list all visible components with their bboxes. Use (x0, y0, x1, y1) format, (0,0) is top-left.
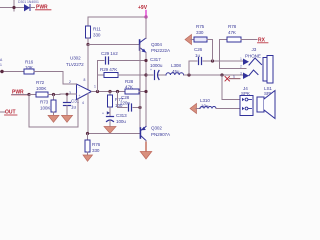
svg-text:U302: U302 (70, 56, 81, 61)
svg-text:45u: 45u (172, 69, 180, 74)
wire op-amp V+ feed (pin 8) (87, 45, 89, 90)
node feedback takeoff (96, 90, 99, 93)
node phones cap branch (187, 73, 190, 76)
svg-text:220n: 220n (120, 101, 130, 106)
svg-text:R78: R78 (228, 24, 237, 29)
svg-text:+: + (102, 112, 104, 116)
diode D301 (25, 5, 35, 11)
transistor Q304 PN2222A (140, 38, 146, 53)
svg-text:+: + (79, 94, 81, 98)
node input edge junction (0, 70, 3, 73)
svg-text:R72: R72 (36, 80, 45, 85)
resistor R77 100 (zobel) (109, 92, 111, 96)
svg-text:-: - (79, 85, 80, 89)
wire R11 bottom to node (87, 38, 89, 45)
wire base drive horizontal (88, 44, 139, 46)
node zobel takeoff (108, 90, 111, 93)
inductor L308 45u (166, 73, 184, 75)
wire feedback vertical (97, 61, 99, 92)
ground under C313 (104, 127, 116, 134)
node R76 branch (86, 132, 89, 135)
svg-text:Q302: Q302 (151, 126, 162, 131)
jack plug barrel (263, 58, 267, 82)
capacitor C313 100u (zobel) (109, 107, 111, 116)
wire +9V rail (88, 16, 146, 18)
svg-text:10u: 10u (201, 104, 209, 109)
ground left (L310) (190, 104, 197, 114)
svg-text:L308: L308 (171, 63, 181, 68)
node base drive (86, 43, 89, 46)
wire op-amp output (92, 91, 126, 93)
svg-text:C26: C26 (194, 47, 203, 52)
jack sleeve contact arrow (243, 73, 249, 80)
resistor R78 47K (220, 40, 247, 69)
svg-text:4: 4 (82, 101, 84, 105)
resistor R16 10K (24, 69, 34, 74)
wire Q305 collector down (145, 141, 147, 144)
svg-text:8: 8 (84, 78, 86, 82)
svg-text:R11: R11 (93, 27, 101, 32)
svg-text:330: 330 (196, 30, 204, 35)
wire bias rail (12, 94, 29, 96)
svg-text:R16: R16 (25, 60, 34, 65)
wire output column (emitters) (145, 53, 147, 127)
svg-text:1: 1 (0, 63, 2, 67)
node speaker branch (220, 73, 223, 76)
svg-text:10K: 10K (25, 65, 34, 70)
resistor R75 330 (194, 37, 207, 42)
capacitor C26 1u (phones) (189, 61, 197, 75)
svg-text:D301 1N4001: D301 1N4001 (18, 0, 39, 4)
jack tip contact arrow (243, 59, 249, 66)
svg-text:PN2222A: PN2222A (151, 48, 171, 53)
node 220n takeoff (116, 90, 119, 93)
svg-text:R76: R76 (92, 142, 101, 147)
resistor 100K (series bias) (36, 92, 48, 97)
resistor R11 (86, 26, 91, 38)
transistor Q305 PN2907A (140, 127, 146, 141)
no-connect X pin5 (225, 77, 230, 82)
svg-text:R73: R73 (40, 100, 49, 105)
ground under R76 (87, 152, 89, 155)
svg-text:3: 3 (240, 72, 242, 76)
svg-text:R28: R28 (125, 79, 134, 84)
svg-text:330: 330 (92, 148, 100, 153)
node attenuator (211, 59, 214, 62)
svg-text:1: 1 (94, 85, 96, 89)
capacitor C29 1n2 (feedback) (98, 60, 105, 62)
connector J4 SPK (240, 96, 253, 116)
svg-text:1000u: 1000u (150, 63, 163, 68)
ground under R73 (53, 112, 55, 115)
svg-text:1: 1 (240, 57, 242, 61)
power port arrow (negative rail) (145, 143, 147, 155)
wire input left edge (0, 71, 24, 73)
capacitor C31 1u (66, 94, 68, 103)
svg-text:TLV2272: TLV2272 (66, 62, 84, 67)
svg-text:100K: 100K (40, 106, 51, 111)
svg-text:C313: C313 (116, 113, 127, 118)
node on base column (138, 106, 141, 109)
resistor R73 100K (53, 95, 55, 101)
svg-text:2: 2 (69, 80, 71, 84)
wire output to jack (184, 74, 246, 76)
node C29 right (144, 59, 147, 62)
ground under C31 (62, 115, 73, 122)
svg-text:C29 1n2: C29 1n2 (101, 51, 118, 56)
resistor R29 47K (feedback) (98, 74, 105, 76)
wire op-amp pin 4 to output stage (87, 93, 89, 133)
wire R75 to node (207, 40, 213, 62)
svg-text:330: 330 (93, 33, 101, 38)
node output column join (144, 90, 147, 93)
wire op-amp V- loop (pin 4 left) (29, 95, 78, 128)
wire vertical stub top edge (13, 0, 15, 11)
op-amp U302 TLV2272 (77, 84, 92, 100)
svg-text:100u: 100u (116, 119, 126, 124)
svg-text:47K: 47K (125, 84, 134, 89)
svg-text:100K: 100K (36, 86, 47, 91)
svg-text:R29 47K: R29 47K (100, 67, 118, 72)
wire top-left input (0, 7, 24, 9)
wire R16 to pin2 jog (34, 72, 77, 85)
svg-text:L310: L310 (200, 98, 210, 103)
wire base column (139, 45, 141, 129)
svg-text:1u: 1u (71, 105, 76, 110)
wire jack to speaker connector (222, 75, 242, 100)
wire base drive to Q305 (88, 133, 140, 135)
wire L310 to connector (216, 108, 242, 110)
svg-text:J3: J3 (252, 47, 257, 52)
svg-text:2: 2 (240, 65, 242, 69)
wire bias to pin3 (48, 93, 77, 96)
wire Q304 collector to +9V (145, 17, 147, 39)
node R73 top (52, 93, 55, 96)
svg-text:47K: 47K (228, 30, 237, 35)
wire R11 top (87, 17, 89, 26)
svg-text:SPK: SPK (241, 91, 251, 96)
resistor R28 47 (output series) (125, 89, 139, 94)
capacitor C28 220n (118, 92, 128, 108)
svg-text:C28: C28 (121, 95, 130, 100)
svg-text:Q304: Q304 (151, 42, 162, 47)
svg-text:PN2907A: PN2907A (151, 132, 171, 137)
capacitor C317 1000u (output coupling) (144, 73, 147, 76)
jack sleeve spring (249, 70, 258, 76)
wire stub left edge (0, 111, 5, 113)
inductor L310 10u (200, 107, 216, 109)
node bias branch (27, 93, 30, 96)
svg-text:1u: 1u (195, 53, 200, 58)
svg-text:PHONE: PHONE (245, 53, 261, 58)
svg-text:C317: C317 (150, 57, 161, 62)
ground left (R75) (185, 35, 192, 45)
svg-text:+: + (150, 68, 152, 72)
svg-text:R75: R75 (196, 24, 205, 29)
jack tip spring (249, 58, 262, 65)
resistor R76 330 (bottom) (87, 134, 89, 141)
node junction at diode input (12, 6, 15, 9)
